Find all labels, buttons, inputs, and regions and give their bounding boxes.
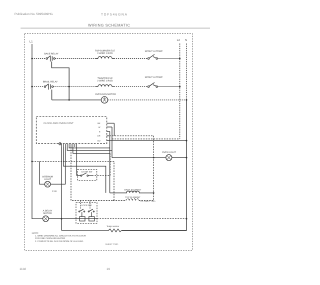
wire lock entry dashed b (89, 201, 91, 209)
svg-text:N: N (185, 38, 187, 42)
heating element E2 (broil element) (96, 85, 115, 87)
heating element E3 (bake) (126, 191, 154, 193)
svg-text:MOTOR: MOTOR (43, 212, 52, 215)
lamp L2 (oven light) (166, 155, 172, 161)
node N feed junction (186, 140, 188, 142)
svg-text:WIRING SCHEMATIC: WIRING SCHEMATIC (88, 24, 130, 28)
wire bus vertical dashed (153, 136, 155, 201)
svg-text:SPOUT HI TEMP: SPOUT HI TEMP (145, 50, 163, 53)
svg-text:SPOUT HI TEMP: SPOUT HI TEMP (145, 76, 163, 79)
wire lock internal a (81, 212, 83, 217)
node light bus junction (153, 157, 155, 159)
wire door switch left lead (77, 175, 81, 177)
wire sensor line (62, 229, 108, 231)
wire rung1 right (114, 58, 148, 60)
svg-text:OVEN FAN MOTOR: OVEN FAN MOTOR (95, 93, 116, 96)
node L1 branch junction (31, 161, 33, 163)
wire rung2 to L2 (158, 86, 180, 88)
svg-text:Publication No. 5995439HG: Publication No. 5995439HG (15, 12, 54, 16)
node light-N junction (186, 157, 188, 159)
svg-text:FOR ONE OVEN AIR HEATER: FOR ONE OVEN AIR HEATER (35, 237, 66, 240)
relay contact K2 (broil relay) (44, 84, 53, 90)
wire lock line left (42, 218, 44, 220)
wire pin1 vertical (113, 123, 115, 136)
wire L1 bus (32, 44, 43, 219)
wire lock internal b (90, 212, 92, 217)
svg-text:TO SHEET TWO: TO SHEET TWO (140, 200, 156, 203)
node rung1-L1 junction (31, 58, 33, 60)
heating element E4 (broil) (126, 199, 154, 201)
diagram border frame (25, 34, 193, 251)
svg-text:DOOR SW: DOOR SW (82, 170, 94, 173)
motor M1 (conv fan motor) (101, 97, 108, 104)
lock terminal block a (80, 217, 86, 221)
electronic oven control U1 (36, 117, 107, 144)
svg-text:L2: L2 (177, 38, 181, 42)
connector comb under control (62, 144, 77, 147)
switch S2 (thermostat) (148, 83, 158, 88)
svg-text:LOCK SW: LOCK SW (81, 204, 92, 207)
pin stub P1 (107, 122, 114, 124)
svg-text:2 WIRE 1 ROD: 2 WIRE 1 ROD (97, 80, 113, 83)
wire door switch right lead (92, 154, 110, 176)
node rung1-L2 junction (179, 58, 181, 60)
svg-text:TOP ELEMENT: TOP ELEMENT (125, 196, 141, 199)
node rung3-N junction (186, 99, 188, 101)
wire sensor to N (123, 229, 187, 231)
wire L1 lamp branch (32, 161, 114, 200)
svg-text:BROIL RELAY: BROIL RELAY (43, 80, 58, 83)
svg-text:1102: 1102 (20, 267, 27, 271)
header rule (21, 27, 210, 29)
svg-text:NOTE:: NOTE: (32, 232, 39, 235)
svg-text:CLOCK AND OVEN CONT: CLOCK AND OVEN CONT (43, 122, 73, 125)
node drop junction rung2 (68, 86, 70, 88)
svg-text:BAKE RELAY: BAKE RELAY (44, 53, 59, 56)
wire contact K1 drop (52, 62, 69, 100)
wire N feed to control (109, 140, 187, 142)
wire comb pin b (67, 147, 112, 150)
svg-text:LIGHT: LIGHT (44, 178, 51, 181)
svg-text:P-30: P-30 (52, 190, 57, 193)
wire pin3 vertical (109, 132, 111, 193)
wire comb pin f lock feed (61, 147, 63, 230)
svg-text:TDF546GNA: TDF546GNA (101, 12, 128, 16)
node rung3 drop junction (68, 99, 70, 101)
heating element E1 (top bake element) (96, 57, 115, 59)
lock switch assembly box (76, 203, 97, 224)
lamp L1 (interior light) (45, 181, 51, 187)
oven sensor RTD (107, 229, 123, 232)
wire comb pin h (73, 147, 110, 153)
svg-text:19: 19 (107, 267, 111, 271)
node lock-N junction (186, 218, 188, 220)
svg-text:Temp sensor: Temp sensor (107, 225, 120, 228)
switch S3 blade (81, 173, 93, 176)
wire L2 bus (179, 44, 181, 139)
wire rung2 right (114, 86, 148, 88)
node rung2-L2 junction (179, 86, 181, 88)
door switch S3 box (78, 169, 97, 180)
wire N bus lower solid (122, 100, 187, 231)
oven light circuit wire (112, 157, 166, 159)
wire lock entry dashed a (80, 201, 82, 209)
broil element circuit wire (113, 200, 126, 202)
pin stub P4 (107, 135, 109, 137)
wire through lock box (76, 218, 97, 220)
lock motor M2 (43, 216, 49, 222)
wire rung1 left (32, 58, 46, 60)
lock terminal block b (89, 217, 95, 221)
wire rung3 (52, 99, 102, 101)
wire comb pin d lamp feed (51, 147, 66, 184)
wire comb pin c (63, 147, 105, 193)
wire rung3 right (108, 99, 187, 101)
wire comb pin e broil feed (71, 147, 113, 201)
bake element circuit wire (110, 192, 126, 194)
svg-text:2 WIRE 1 ROD: 2 WIRE 1 ROD (97, 52, 113, 55)
wire L2 turn (112, 138, 180, 140)
wire comb pin g door switch feed (76, 147, 78, 176)
svg-text:BAKE ELEMENT: BAKE ELEMENT (124, 188, 141, 191)
wire comb pin a (69, 146, 110, 149)
lock contact a (79, 209, 85, 212)
wire rung1 to L2 (158, 58, 180, 60)
lock contact b (88, 209, 94, 212)
wire contact K2 drop (51, 90, 53, 100)
svg-text:SHEET TWO: SHEET TWO (105, 243, 118, 246)
svg-text:OVEN LIGHT: OVEN LIGHT (162, 151, 177, 154)
wire lock to N dashed (97, 218, 187, 220)
connector marker circle (59, 143, 61, 145)
wire lamp left lead (40, 161, 45, 184)
svg-text:2. CONTACTS SH. N IS ON OP: 2. CONTACTS SH. N IS ON OPEN OF ALL DIAG… (35, 240, 84, 243)
wire L2 feed to control (107, 135, 154, 137)
node bake bus junction (153, 192, 155, 194)
wire light to N (172, 157, 187, 159)
switch S1 (thermostat) (148, 54, 158, 59)
wire N bus (186, 44, 188, 100)
svg-text:L1: L1 (30, 39, 34, 43)
svg-text:W: W (98, 126, 100, 129)
relay contact K1 (bake relay) (46, 56, 55, 62)
node rung2-L1 junction (31, 86, 33, 88)
pin stub P2 (107, 126, 112, 128)
pin stub P5 (107, 140, 109, 142)
wire rung2 left (32, 86, 44, 88)
wire lock line motor to box (49, 218, 76, 220)
wire rung1 mid (55, 58, 97, 60)
wire pin2 vertical (111, 127, 113, 158)
wire rung2 mid (53, 86, 97, 88)
node lock junction (61, 218, 63, 220)
pin stub P3 (107, 131, 110, 133)
